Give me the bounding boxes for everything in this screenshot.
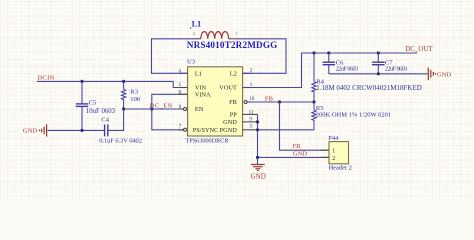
svg-text:C4: C4 (101, 117, 109, 124)
ground symbol bottom (251, 165, 265, 171)
wire L1 pin to inductor left (152, 39, 196, 74)
net label DCIN (37, 75, 54, 82)
junction R4 top (312, 51, 315, 54)
junction R3/C4 riser (122, 107, 125, 110)
svg-text:GND: GND (293, 151, 307, 158)
designator P44 (328, 135, 339, 142)
pin name PS/SYNC (193, 127, 219, 134)
pin stub header pin2 (321, 156, 330, 158)
pin name L1 (195, 70, 202, 77)
svg-text:U3: U3 (187, 59, 196, 66)
svg-text:GND: GND (223, 119, 237, 126)
label R5 value (316, 105, 391, 119)
label GND left (23, 128, 38, 135)
svg-text:GND: GND (437, 71, 452, 78)
net label FB (265, 96, 274, 103)
svg-text:L2: L2 (230, 70, 237, 77)
wire inductor right to L2 pin (235, 39, 286, 74)
pin 2 header (332, 156, 335, 162)
svg-text:VINA: VINA (195, 91, 211, 98)
svg-text:1.18M 0402 CRCW04021M18FKED: 1.18M 0402 CRCW04021M18FKED (316, 84, 422, 92)
junction C7 top (377, 51, 380, 54)
pin 11 PP stub (243, 111, 258, 116)
pin name PP (230, 112, 238, 119)
svg-text:L1: L1 (195, 70, 202, 77)
svg-text:1: 1 (332, 149, 335, 155)
svg-text:22uF 0603: 22uF 0603 (385, 66, 408, 73)
value TPS63000DRCR (186, 138, 230, 145)
svg-text:100: 100 (130, 96, 141, 103)
svg-text:11: 11 (249, 111, 254, 116)
capacitor C5 (76, 81, 89, 130)
pin name VINA (195, 91, 211, 98)
svg-text:2: 2 (332, 156, 335, 162)
pin name VOUT (219, 85, 237, 92)
svg-text:NRS4010T2R2MDGG: NRS4010T2R2MDGG (187, 40, 277, 50)
svg-text:PGND: PGND (220, 127, 238, 134)
wire GND bus right of IC (257, 114, 259, 163)
net label FB header (293, 143, 302, 150)
designator L1 (190, 20, 201, 29)
junction DC_EN/VINA cross (150, 107, 153, 110)
label GND bottom (251, 172, 266, 180)
wire GND rail left (48, 129, 105, 131)
svg-text:PP: PP (230, 112, 238, 119)
pin 4 L1 stub (178, 69, 187, 74)
resistor R4 (312, 53, 316, 102)
pin name VIN (195, 85, 207, 92)
svg-text:10uF 0603: 10uF 0603 (86, 108, 116, 115)
label R4 value (316, 79, 422, 92)
junction GND bus/header (256, 156, 259, 159)
net label GND header (293, 151, 307, 158)
svg-text:DC_OUT: DC_OUT (405, 45, 433, 53)
label C4 value (99, 117, 142, 145)
wire VOUT to output rail (243, 53, 417, 88)
pin 1 VOUT stub (243, 83, 253, 88)
pin 8 VINA stub (178, 90, 187, 95)
svg-text:TPS63000DRCR: TPS63000DRCR (186, 138, 230, 145)
junction at DCIN/R3 (122, 80, 125, 83)
capacitor C7 (372, 53, 385, 74)
wire FB to header pin1 (280, 102, 330, 150)
svg-text:C5: C5 (89, 99, 97, 106)
pin 7 PS/SYNC stub with bubble (178, 125, 186, 132)
connector P44 body (329, 142, 349, 164)
pin name GND (223, 119, 237, 126)
label C5 value (86, 99, 116, 115)
designator U3 (187, 59, 196, 66)
svg-text:22uF 0603: 22uF 0603 (336, 66, 359, 73)
label C6 value (336, 60, 359, 73)
pin 5 VIN stub (178, 83, 187, 88)
label GND right (437, 71, 452, 78)
power ground symbol right (428, 68, 436, 81)
resistor R3 (121, 81, 125, 109)
svg-text:DC_EN: DC_EN (150, 103, 173, 110)
pin name PGND (220, 127, 238, 134)
value Header 2 (329, 164, 352, 171)
wire DCIN rail (37, 81, 188, 87)
resistor R5 (312, 102, 316, 130)
pin 6 EN stub with bubble (178, 105, 186, 111)
svg-text:R3: R3 (130, 88, 138, 95)
junction C5 bottom (80, 129, 83, 132)
pin 1 header (332, 149, 335, 155)
capacitor C4 (105, 109, 124, 136)
svg-text:FB: FB (229, 99, 237, 106)
op-amp / IC U3 body (188, 67, 243, 136)
pin 9 GND stub (243, 118, 258, 123)
svg-text:DCIN: DCIN (37, 75, 54, 82)
wire FB net (247, 101, 314, 103)
wire DC_EN (R3 bottom to EN pin) (124, 108, 184, 110)
wire GND rail right (329, 73, 428, 75)
label R3 value (130, 88, 141, 103)
svg-text:FB: FB (293, 143, 302, 150)
capacitor C6 (323, 53, 336, 74)
svg-text:200K OHM 1% 1/20W 0201: 200K OHM 1% 1/20W 0201 (316, 112, 391, 119)
junction C6 top (327, 51, 330, 54)
svg-text:FB: FB (265, 96, 274, 103)
pin name FB (229, 99, 237, 106)
svg-text:P44: P44 (328, 135, 339, 142)
svg-text:1: 1 (235, 31, 237, 36)
junction at DCIN/C5 (80, 80, 83, 83)
svg-text:0.1uF 6.3V 0402: 0.1uF 6.3V 0402 (99, 138, 142, 145)
net label DC_EN (150, 103, 173, 110)
svg-text:VOUT: VOUT (219, 85, 237, 92)
junction pin9/bus (256, 120, 259, 123)
net label DC_OUT (405, 45, 433, 53)
pin 2 L2 stub (243, 69, 253, 74)
pin 10 FB stub with bubble (244, 97, 255, 103)
pin name L2 (230, 70, 237, 77)
junction C7 bottom (377, 72, 380, 75)
inductor L1 (193, 31, 238, 39)
svg-text:GND: GND (251, 172, 266, 180)
wire VINA to PS/SYNC (152, 94, 188, 130)
pin name EN (195, 106, 204, 113)
junction FB/header riser (278, 100, 281, 103)
svg-text:EN: EN (195, 106, 204, 113)
junction pin3/bus (256, 128, 259, 131)
svg-text:GND: GND (23, 128, 38, 135)
pin 3 PGND stub (243, 125, 258, 130)
wire R5 bottom to GND bus (258, 129, 315, 131)
power ground symbol left (39, 124, 47, 136)
svg-text:Header 2: Header 2 (329, 164, 352, 171)
svg-text:10: 10 (249, 97, 255, 102)
value NRS4010T2R2MDGG (187, 40, 277, 50)
svg-text:2: 2 (193, 31, 195, 36)
wire GND to header pin2 (258, 156, 330, 158)
pin stub header pin1 (321, 149, 330, 151)
junction FB/R4/R5 (312, 100, 315, 103)
label C7 value (385, 60, 408, 73)
svg-text:PS/SYNC: PS/SYNC (193, 127, 219, 134)
svg-text:L1: L1 (192, 20, 201, 29)
